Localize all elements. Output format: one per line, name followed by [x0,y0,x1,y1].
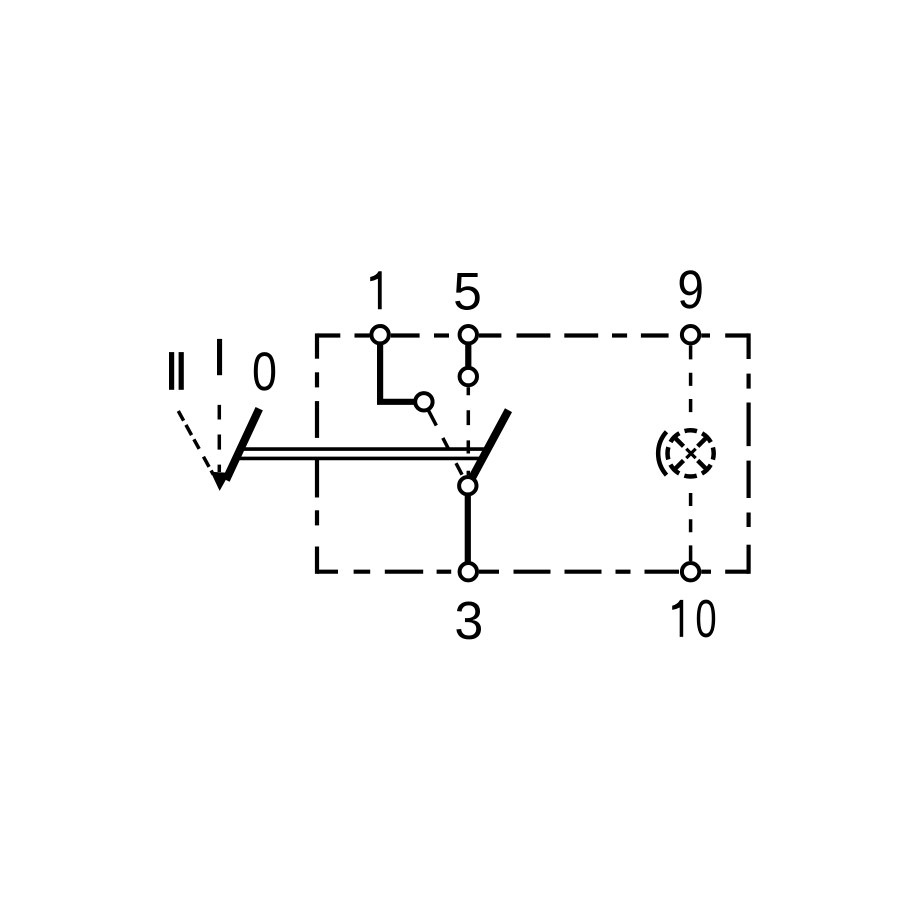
dashed line contact B to pivot [467,387,471,475]
terminal 3 [460,563,477,580]
label 5 [455,273,480,310]
wire from terminal 1 to contact A [380,344,414,402]
label 10 digit 1 [672,600,683,637]
lamp E1 dashed circle [668,430,714,476]
enclosure border bottom [317,570,749,574]
actuator bar bottom line [234,457,484,461]
position label 0 [254,352,275,391]
lamp E1 cross arm bottom-left [674,461,683,470]
lamp E1 reflector arc [658,432,666,475]
terminal 9 [682,326,699,343]
terminal 10 [682,563,699,580]
dashed line lamp to terminal 10 [689,479,693,561]
contact A [415,393,432,410]
lever arrowhead [211,472,230,491]
position line I (dashed) [218,405,222,472]
right lever (moving contact) [472,410,508,477]
label 10 digit 0 [697,600,715,638]
lamp E1 cross arm top-left [674,437,683,446]
position label I [217,339,222,375]
enclosure border left [315,333,319,573]
enclosure border right [746,333,750,573]
label 1 [370,271,382,309]
lamp E1 center cross stroke 2 [686,449,695,458]
wire from terminal 5 to contact B [465,344,471,368]
position label II [169,352,184,390]
contact B [460,368,477,385]
enclosure border top [317,333,749,337]
label 9 [680,270,702,308]
wire pivot to terminal 3 [465,496,471,563]
terminal 1 [371,326,388,343]
terminal 5 [460,326,477,343]
dashed line contact A to pivot [429,411,463,476]
lamp E1 center cross stroke 1 [686,449,695,458]
label 3 [456,601,481,639]
left lever [226,409,259,480]
actuator bar top line [237,447,487,451]
lamp E1 cross arm bottom-right [698,461,707,470]
position line II (dashed) [178,411,213,475]
pivot contact circle [459,477,476,494]
dashed line terminal 9 to lamp [689,345,693,426]
lamp E1 cross arm top-right [698,437,707,446]
